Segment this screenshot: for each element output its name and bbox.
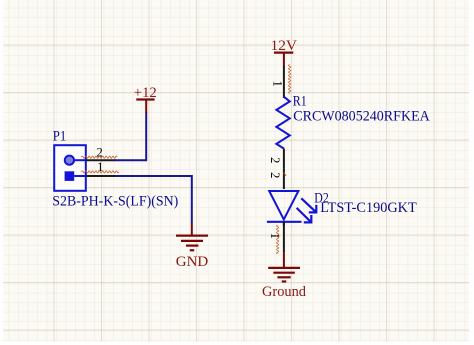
power port 12V	[271, 38, 298, 67]
resistor R1	[276, 97, 289, 149]
LED D2 pin 2	[268, 169, 286, 189]
svg-text:S2B-PH-K-S(LF)(SN): S2B-PH-K-S(LF)(SN)	[52, 194, 178, 210]
LED D2 pin 1	[268, 222, 284, 254]
svg-text:GND: GND	[176, 254, 209, 270]
LED D2	[267, 191, 316, 226]
svg-text:2: 2	[268, 172, 282, 178]
svg-text:CRCW0805240RFKEA: CRCW0805240RFKEA	[293, 109, 430, 125]
svg-text:Ground: Ground	[262, 284, 307, 300]
svg-text:P1: P1	[53, 129, 67, 145]
P1 pin 1	[82, 160, 119, 176]
svg-text:1: 1	[270, 80, 284, 86]
resistor R1 pin 1	[270, 65, 290, 99]
svg-text:R1: R1	[293, 94, 307, 110]
wire P1 pin1 to GND	[115, 176, 192, 223]
svg-text:1: 1	[268, 233, 282, 239]
connector P1	[54, 145, 86, 191]
power port Ground	[262, 252, 307, 300]
power port +12	[134, 85, 157, 113]
resistor R1 pin 2	[268, 149, 284, 169]
power port GND	[176, 223, 209, 270]
svg-text:LTST-C190GKT: LTST-C190GKT	[320, 200, 417, 216]
P1 pin 2	[82, 146, 118, 161]
svg-text:2: 2	[268, 157, 282, 163]
wire P1 pin2 to +12	[115, 112, 147, 160]
